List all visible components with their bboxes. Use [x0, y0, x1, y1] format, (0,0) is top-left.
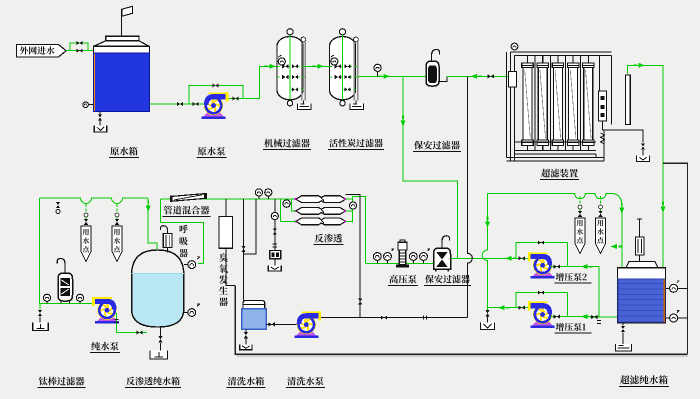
relief valve on loop: [56, 202, 60, 208]
UF back pipes between tubes: [534, 56, 536, 151]
UF tank lower sensor: [666, 317, 671, 319]
manifold valves 活性炭过滤器 F2: [335, 64, 341, 68]
wire UF permeate out: [628, 65, 663, 267]
UF left pipe: [510, 52, 512, 161]
vent curve SF1: [432, 50, 440, 62]
vent SF2: [442, 236, 450, 248]
pressure gauge 机械过滤器 F1: [279, 56, 282, 58]
RO membrane row 2: [296, 208, 346, 215]
filter vessel 机械过滤器 F1: [277, 37, 303, 100]
wire left loop return to RO tank: [148, 198, 157, 251]
tank 清洗水箱: [243, 301, 265, 309]
valve pump outlet: [232, 96, 238, 100]
center green line 机械过滤器 F1: [289, 35, 291, 100]
RO tank upper sensor: [184, 264, 188, 266]
label 增压泵2: [556, 273, 587, 281]
unit 超滤装置: [507, 43, 650, 161]
wire suction header vertical: [599, 267, 617, 317]
manifold valves 机械过滤器 F1: [282, 64, 288, 68]
tank 超滤纯水箱: [618, 268, 666, 323]
wire pump2 discharge: [527, 257, 530, 259]
UF drain piping: [602, 121, 604, 130]
cleaning tank outlet: [266, 323, 298, 325]
vessel 保安过滤器2: [434, 248, 451, 269]
wire RO concentrate (black): [346, 195, 361, 318]
label 反渗透纯水箱: [126, 377, 179, 386]
wire tank to pump suction: [150, 103, 206, 105]
RO tank lower sensor: [184, 312, 188, 314]
vent circle top 活性炭过滤器 F2: [339, 29, 345, 35]
valve suction 2: [192, 102, 198, 106]
vessel 保安过滤器1: [426, 61, 439, 86]
RO tank drain: [160, 327, 162, 336]
wire pump bypass: [189, 86, 243, 105]
wire SF1 outlet (black elbow): [439, 76, 447, 81]
raw tank drain: [99, 112, 101, 115]
UF top manifold: [511, 51, 612, 53]
center green line 活性炭过滤器 F2: [342, 35, 344, 100]
wire right loop riser: [482, 193, 487, 307]
UF tank drain: [622, 323, 624, 326]
drain basin 机械过滤器 F1: [298, 104, 312, 110]
filter vessel 活性炭过滤器 F2: [330, 37, 356, 100]
UF mid line: [515, 141, 597, 143]
gauge right of Ti filter: [76, 294, 83, 301]
pump 增压泵2 bypass: [516, 243, 567, 267]
label 钛棒过滤器: [39, 377, 85, 386]
drain pipe right 活性炭过滤器 F2: [353, 42, 355, 101]
label 纯水泵: [91, 342, 118, 351]
wire pump2 suction: [551, 266, 600, 268]
UF bottom manifold: [515, 150, 597, 152]
valve inlet bypass: [76, 41, 82, 45]
UF rotameter: [599, 91, 607, 121]
label 清洗水箱: [228, 377, 264, 386]
pump 原水泵: [202, 92, 229, 119]
gauge after filter2: [374, 64, 381, 71]
UF collect tube: [625, 75, 630, 125]
wire pump outlet: [226, 66, 277, 98]
label 保安过滤器2: [425, 275, 470, 283]
wire RO permeate collector: [352, 197, 365, 264]
pump 增压泵1 bypass: [516, 293, 567, 317]
pump 增压泵2: [528, 252, 555, 279]
arrow to security filter: [383, 74, 390, 79]
label 高压泵: [389, 275, 416, 284]
wire left loop left side: [39, 198, 92, 303]
wire inlet main: [66, 50, 94, 52]
breather 呼吸器: [161, 226, 168, 234]
label 增压泵1: [556, 323, 586, 331]
label 呼吸器: [179, 225, 188, 257]
pressure gauge 活性炭过滤器 F2: [331, 56, 334, 58]
valve suction 1: [177, 102, 183, 106]
sample stub arrow: [611, 244, 618, 249]
wire pump1 discharge: [488, 307, 530, 309]
bottom vent circle 活性炭过滤器 F2: [340, 101, 345, 106]
banner 用水点 R2: [600, 196, 602, 218]
pump 纯水泵: [92, 297, 119, 324]
wire right loop top: [488, 193, 622, 267]
level gauge on raw tank: [89, 104, 94, 106]
wire dosing branch 1: [244, 199, 256, 254]
label 臭氧发生器: [219, 253, 228, 306]
wire CIP vertical (black): [467, 76, 472, 317]
valve inlet main: [76, 49, 82, 53]
label 管道混合器: [164, 206, 210, 215]
wire CIP bottom (black): [320, 317, 468, 319]
label 超滤装置: [541, 169, 578, 178]
UF gauge: [511, 43, 518, 50]
wire RO feed row3: [280, 199, 296, 222]
wire filter1 to filter2: [303, 65, 330, 67]
wire mixer line to RO tank sensor: [160, 199, 203, 264]
UF tank outlet valve: [591, 316, 600, 318]
drain pipe right 机械过滤器 F1: [301, 42, 303, 101]
UF tank lid: [626, 262, 658, 268]
banner 用水点 L1: [85, 204, 87, 226]
tank 原水箱: [94, 36, 150, 111]
label 保安过滤器: [414, 141, 460, 150]
valve KI before UF: [488, 74, 494, 78]
label 活性炭过滤器: [329, 139, 383, 147]
wire SF2 outlet: [451, 257, 527, 259]
gauges HP line: [373, 253, 381, 261]
vessel 钛棒过滤器: [57, 259, 65, 274]
label 清洗水泵: [287, 377, 323, 386]
wire mixer line: [160, 198, 296, 200]
mixer 管道混合器: [172, 194, 205, 202]
manifold green dashes 活性炭过滤器 F2: [330, 65, 358, 67]
pump 清洗水泵: [294, 311, 321, 338]
wire SF1 to UF inlet: [447, 75, 511, 77]
bottom vent circle 机械过滤器 F1: [287, 101, 292, 106]
wire RO feed row2: [292, 199, 297, 211]
wire inlet bypass: [70, 43, 88, 51]
flag on tank: [121, 9, 123, 36]
gauge below line (RO feed): [283, 200, 290, 207]
label 原水泵: [198, 147, 225, 156]
UF outer bottom frame: [507, 157, 605, 159]
arrow into filter1: [269, 64, 276, 69]
ozone generator 臭氧发生器: [225, 199, 227, 217]
UF membrane tubes: [522, 56, 533, 151]
wire dosing branch 2 + device: [274, 199, 276, 251]
wire pure pump suction: [117, 313, 147, 333]
label 超滤纯水箱: [620, 375, 668, 384]
banner 用水点 R1: [579, 196, 581, 218]
left loop drain: [39, 303, 41, 309]
wire HP pump line: [366, 263, 434, 265]
vent circle top 机械过滤器 F1: [287, 29, 293, 35]
valve pump bypass: [212, 83, 218, 87]
wire cleaning tank fill: [243, 199, 245, 301]
label 机械过滤器: [264, 139, 310, 148]
UF tank top device: [639, 219, 641, 237]
RO membrane row 3: [296, 218, 346, 225]
wire filter2 outlet: [358, 75, 426, 77]
RO membrane row 1: [296, 196, 346, 203]
gauge left of Ti filter: [43, 294, 50, 301]
UF right pipes: [599, 56, 601, 92]
frame bottom control line: [235, 286, 688, 355]
UF tank upper sensor: [666, 287, 671, 289]
dosing device: [270, 251, 281, 259]
label 原水箱: [110, 147, 137, 156]
tank 反渗透纯水箱: [132, 274, 184, 327]
wire UF bypass down: [403, 76, 458, 258]
gauge on collector: [350, 202, 357, 209]
pump 高压泵 (vertical multistage): [399, 250, 405, 265]
label 反渗透: [315, 234, 342, 243]
banner 用水点 L2: [116, 204, 118, 226]
loop bottom drain: [487, 308, 489, 310]
wire pump1 suction: [551, 316, 600, 318]
wire ozone out: [226, 248, 235, 285]
gauges on mixer line: [255, 189, 262, 196]
manifold green dashes 机械过滤器 F1: [277, 65, 305, 67]
cleaning tank drain: [245, 329, 247, 332]
pump 增压泵1: [528, 301, 555, 328]
wire left loop top: [39, 198, 148, 204]
node 外网进水 inlet flag: [17, 45, 67, 58]
drain basin 活性炭过滤器 F2: [350, 104, 364, 110]
